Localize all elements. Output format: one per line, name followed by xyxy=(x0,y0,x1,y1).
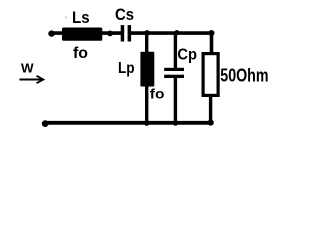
svg-text:Lp: Lp xyxy=(118,60,135,77)
svg-text:Cp: Cp xyxy=(177,46,197,63)
svg-text:W: W xyxy=(21,60,34,75)
svg-text:50Ohm: 50Ohm xyxy=(220,66,268,86)
svg-text:Ls: Ls xyxy=(72,8,90,27)
svg-text:Cs: Cs xyxy=(115,5,134,24)
svg-text:fo: fo xyxy=(73,45,88,62)
svg-text:fo: fo xyxy=(150,86,165,102)
